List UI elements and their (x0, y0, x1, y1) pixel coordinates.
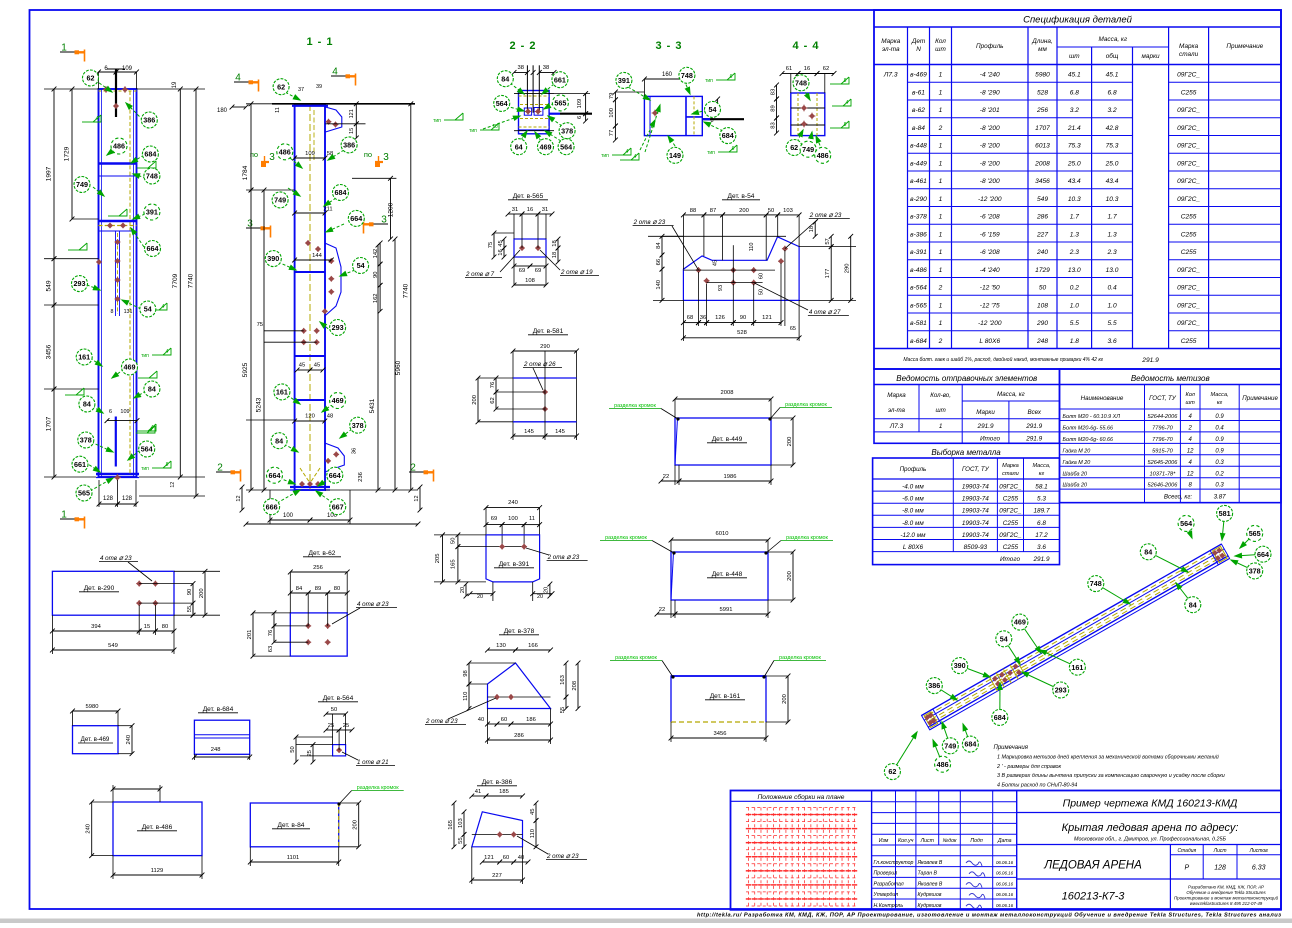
svg-text:7740: 7740 (188, 273, 195, 288)
balloon 684 (720, 128, 736, 144)
svg-text:С255: С255 (1181, 338, 1197, 345)
detail v-469 (70, 704, 134, 756)
svg-text:Примечание: Примечание (1226, 43, 1263, 50)
svg-text:по: по (364, 150, 372, 159)
svg-text:8: 8 (844, 78, 847, 84)
svg-text:в-564: в-564 (910, 285, 927, 292)
svg-text:76: 76 (268, 630, 274, 636)
svg-text:18: 18 (552, 240, 558, 246)
anchor rib bottom view 1 (115, 417, 117, 467)
svg-text:Профиль: Профиль (976, 43, 1004, 50)
left dim chain view 1 (44, 88, 99, 90)
svg-text:564: 564 (141, 445, 153, 454)
balloon 84 (271, 433, 287, 449)
svg-text:62: 62 (87, 74, 95, 83)
svg-text:Выборка металла: Выборка металла (931, 448, 1001, 457)
svg-text:248: 248 (211, 747, 221, 753)
svg-text:Болт М20-6g- 60.66: Болт М20-6g- 60.66 (1063, 437, 1113, 443)
beam axis 3-3 (702, 118, 744, 120)
balloon 378 (559, 123, 575, 139)
balloon 386 (341, 137, 357, 153)
svg-text:мм: мм (1038, 46, 1047, 53)
svg-text:145: 145 (555, 429, 565, 435)
svg-text:1: 1 (939, 302, 943, 309)
balloon 469 (122, 359, 138, 375)
svg-text:165: 165 (451, 559, 457, 569)
svg-text:-4.0 мм: -4.0 мм (902, 484, 924, 491)
svg-text:0.2: 0.2 (1215, 471, 1224, 477)
svg-text:83: 83 (770, 89, 776, 95)
svg-text:Дата: Дата (997, 838, 1012, 844)
svg-text:4 отв ⌀ 23: 4 отв ⌀ 23 (357, 601, 389, 608)
svg-text:кг: кг (1217, 400, 1223, 406)
svg-text:108: 108 (1037, 302, 1048, 309)
svg-text:16: 16 (527, 207, 533, 213)
svg-text:76: 76 (490, 382, 496, 388)
svg-text:8: 8 (166, 462, 169, 468)
svg-text:Дет. в-448: Дет. в-448 (712, 571, 743, 578)
svg-text:109: 109 (122, 66, 133, 72)
detail v-391 (434, 500, 588, 601)
svg-text:Кол.уч: Кол.уч (898, 838, 914, 844)
svg-text:шт: шт (1186, 400, 1196, 406)
svg-text:549: 549 (108, 643, 118, 649)
svg-text:186: 186 (526, 717, 536, 723)
balloon 661 (72, 456, 88, 472)
svg-text:1.3: 1.3 (1107, 231, 1116, 238)
section view 4-4 (770, 40, 851, 150)
title block right section (1017, 812, 1281, 814)
svg-text:75: 75 (488, 242, 494, 248)
svg-text:50: 50 (290, 746, 296, 752)
balloon 378 (78, 432, 94, 448)
svg-text:стали: стали (1179, 51, 1199, 58)
balloon 62 (273, 79, 289, 95)
svg-text:581: 581 (1219, 509, 1231, 518)
svg-text:С255: С255 (1003, 496, 1019, 503)
svg-text:486: 486 (817, 151, 829, 160)
svg-text:128: 128 (103, 496, 114, 502)
svg-text:2 ' - размеры для справок: 2 ' - размеры для справок (996, 764, 1062, 770)
svg-text:45.1: 45.1 (1068, 72, 1081, 79)
svg-text:4: 4 (846, 100, 849, 106)
svg-text:4 отв ⌀ 27: 4 отв ⌀ 27 (809, 309, 841, 316)
svg-text:77: 77 (609, 130, 615, 136)
svg-text:160: 160 (662, 72, 673, 78)
svg-text:84: 84 (656, 242, 662, 249)
section mark 1 top (60, 51, 80, 53)
svg-text:565: 565 (554, 99, 566, 108)
svg-text:564: 564 (1180, 519, 1192, 528)
member outline isometric (922, 544, 1222, 715)
svg-text:7709: 7709 (172, 273, 179, 288)
svg-text:55: 55 (560, 707, 566, 713)
svg-text:10.3: 10.3 (1068, 196, 1081, 203)
balloon 486 (111, 138, 127, 154)
svg-text:06.06.16: 06.06.16 (996, 892, 1014, 897)
svg-text:20: 20 (544, 587, 550, 593)
svg-text:-12 '200: -12 '200 (978, 320, 1002, 327)
balloon 390 (265, 251, 281, 267)
svg-text:№док: №док (943, 838, 957, 844)
balloon 564 (139, 441, 155, 457)
svg-text:144: 144 (312, 253, 322, 259)
svg-text:Разработал: Разработал (874, 881, 904, 887)
svg-text:2 отв ⌀ 23: 2 отв ⌀ 23 (547, 554, 580, 561)
step upper bracket view 1-1 (325, 243, 341, 316)
svg-text:Проверил: Проверил (874, 871, 898, 877)
iso balloon 161 (1040, 650, 1077, 667)
svg-text:45.1: 45.1 (1106, 72, 1119, 79)
balloon 469 (330, 393, 346, 409)
svg-text:Обучение и внедрение Tekla Str: Обучение и внедрение Tekla Structures (1186, 890, 1266, 895)
svg-text:39: 39 (316, 84, 322, 90)
svg-text:в-565: в-565 (910, 302, 927, 309)
bottom bracket view 1-1 (325, 443, 345, 472)
svg-text:565: 565 (78, 489, 90, 498)
svg-text:64: 64 (515, 142, 523, 151)
svg-text:145: 145 (524, 429, 534, 435)
iso balloon 84 (1176, 583, 1193, 605)
view 1-1 column elevation (216, 36, 434, 526)
svg-text:749: 749 (76, 180, 88, 189)
svg-text:6: 6 (732, 146, 735, 152)
transition lines view 1-1 (295, 271, 325, 273)
section marks 4 (234, 81, 254, 83)
svg-text:486: 486 (937, 760, 949, 769)
svg-text:в-486: в-486 (910, 267, 927, 274)
svg-text:Ведомость отправочных элементо: Ведомость отправочных элементов (896, 374, 1037, 383)
svg-text:Болт М20 - 60.10.9 ХЛ: Болт М20 - 60.10.9 ХЛ (1063, 414, 1121, 420)
red grid plan (748, 808, 750, 907)
svg-text:3.6: 3.6 (1037, 544, 1046, 551)
svg-text:565: 565 (1249, 529, 1261, 538)
svg-text:Дет: Дет (911, 38, 926, 45)
svg-text:60: 60 (503, 855, 509, 861)
svg-text:Московская обл., г. Дмитров, у: Московская обл., г. Дмитров, ул. Професс… (1074, 837, 1226, 843)
svg-text:291.9: 291.9 (1033, 556, 1050, 563)
svg-text:240: 240 (86, 824, 92, 834)
svg-text:200: 200 (353, 820, 359, 830)
svg-text:25.0: 25.0 (1067, 160, 1081, 167)
svg-text:0.3: 0.3 (1215, 460, 1224, 466)
svg-text:50: 50 (331, 707, 337, 713)
svg-text:09Г2С_: 09Г2С_ (1177, 178, 1200, 185)
svg-text:в-84: в-84 (912, 125, 925, 132)
svg-text:Кудряшов: Кудряшов (918, 903, 942, 909)
svg-text:4: 4 (150, 427, 153, 433)
svg-text:4: 4 (162, 304, 165, 310)
detail v-54 (633, 193, 856, 341)
balloon 84 (497, 71, 513, 87)
svg-text:1: 1 (61, 43, 67, 54)
svg-text:L 80X6: L 80X6 (979, 338, 1000, 345)
svg-text:166: 166 (528, 643, 538, 649)
balloon 486 (815, 147, 831, 163)
svg-text:549: 549 (1037, 196, 1048, 203)
svg-text:103: 103 (458, 818, 464, 828)
svg-text:62: 62 (888, 767, 896, 776)
svg-text:3456: 3456 (1035, 178, 1050, 185)
svg-text:-6 '208: -6 '208 (980, 214, 1000, 221)
balloon 748 (144, 168, 160, 184)
svg-text:в-581: в-581 (910, 320, 927, 327)
svg-text:87: 87 (710, 208, 716, 214)
bottom grey strip (0, 919, 1292, 924)
svg-text:1: 1 (939, 72, 943, 79)
svg-text:1 Маркировка метизов дней кре: 1 Маркировка метизов дней крепления за м… (997, 754, 1219, 761)
svg-text:4 Болты расход по СНиП-80-94: 4 Болты расход по СНиП-80-94 (997, 783, 1077, 789)
svg-text:200: 200 (787, 571, 793, 581)
iso balloon 386 (934, 686, 957, 700)
balloon 386 (141, 112, 157, 128)
svg-text:256: 256 (313, 565, 323, 571)
svg-text:211: 211 (323, 207, 332, 213)
balloon 684 (333, 185, 349, 201)
detail v-161 (610, 655, 826, 742)
svg-text:200: 200 (199, 588, 205, 598)
svg-text:2 - 2: 2 - 2 (509, 40, 536, 52)
svg-text:121: 121 (762, 315, 772, 321)
svg-text:84: 84 (296, 586, 303, 592)
iso balloon 748 (1096, 584, 1130, 604)
iso balloon 62 (892, 732, 917, 772)
detail v-84 (248, 785, 404, 866)
svg-text:марки: марки (1142, 53, 1161, 60)
svg-text:Лист: Лист (1213, 848, 1227, 854)
svg-text:68: 68 (687, 315, 693, 321)
svg-text:0.9: 0.9 (1215, 448, 1224, 454)
svg-text:19903-74: 19903-74 (962, 532, 989, 539)
top small dims view 1 (99, 71, 117, 73)
svg-text:кг: кг (1039, 471, 1045, 477)
svg-text:Марка: Марка (1002, 463, 1019, 469)
table vyborka metalla (873, 448, 1060, 565)
svg-text:98: 98 (463, 670, 469, 676)
svg-text:тип: тип (705, 78, 713, 84)
svg-text:165: 165 (448, 820, 454, 830)
svg-text:6: 6 (109, 409, 112, 415)
svg-text:Марка: Марка (887, 392, 906, 399)
svg-text:3.6: 3.6 (1107, 338, 1116, 345)
svg-text:2 отв ⌀ 7: 2 отв ⌀ 7 (465, 271, 495, 278)
svg-text:12: 12 (1187, 448, 1194, 454)
svg-text:5980: 5980 (1035, 72, 1050, 79)
svg-text:1 отв ⌀ 21: 1 отв ⌀ 21 (357, 759, 389, 766)
bottom dims view 1 (99, 503, 118, 505)
svg-text:161: 161 (78, 353, 90, 362)
balloon 664 (267, 467, 283, 483)
iso balloon 565 (1240, 533, 1255, 548)
svg-text:286: 286 (514, 733, 524, 739)
svg-text:Всех: Всех (1027, 409, 1041, 416)
balloon 64 (511, 139, 527, 155)
svg-text:5431: 5431 (369, 398, 376, 413)
svg-text:200: 200 (739, 208, 749, 214)
svg-text:90: 90 (740, 315, 746, 321)
svg-text:390: 390 (267, 254, 279, 263)
svg-text:6013: 6013 (1035, 143, 1050, 150)
svg-text:Марка: Марка (1179, 43, 1199, 50)
svg-text:386: 386 (143, 116, 155, 125)
svg-text:16: 16 (804, 66, 810, 72)
svg-text:564: 564 (560, 142, 572, 151)
iso balloon 749 (942, 722, 950, 746)
svg-text:3: 3 (247, 219, 253, 230)
balloons 3-3 (616, 67, 736, 163)
balloon 748 (679, 67, 695, 83)
outline 3-3 (644, 96, 702, 135)
svg-text:684: 684 (994, 713, 1006, 722)
svg-text:Стадия: Стадия (1177, 848, 1196, 854)
svg-text:109: 109 (120, 409, 129, 415)
svg-text:Дет. в-581: Дет. в-581 (533, 328, 564, 335)
svg-text:-12 '50: -12 '50 (980, 285, 1000, 292)
svg-text:11: 11 (275, 107, 281, 113)
svg-text:10371-78*: 10371-78* (1150, 471, 1177, 477)
svg-text:Спецификация деталей: Спецификация деталей (1023, 15, 1133, 26)
svg-text:50: 50 (451, 538, 457, 544)
svg-text:0.3: 0.3 (1215, 483, 1224, 489)
svg-text:Дет. в-449: Дет. в-449 (712, 436, 743, 443)
svg-text:в-391: в-391 (910, 249, 927, 256)
svg-text:37: 37 (298, 87, 304, 93)
svg-text:Положение сборки на плане: Положение сборки на плане (758, 793, 845, 801)
balloons 2-2 (494, 71, 575, 155)
leaders 2-2 (510, 83, 524, 94)
svg-text:4: 4 (96, 116, 99, 122)
svg-text:236: 236 (358, 472, 364, 482)
svg-text:61: 61 (786, 66, 792, 72)
svg-text:15: 15 (144, 624, 150, 630)
svg-text:8: 8 (111, 309, 114, 315)
svg-text:163: 163 (560, 675, 566, 685)
svg-text:2 отв ⌀ 23: 2 отв ⌀ 23 (809, 212, 842, 219)
svg-text:С255: С255 (1181, 231, 1197, 238)
svg-text:тип: тип (141, 353, 149, 359)
svg-text:89: 89 (770, 105, 776, 111)
detail v-581 (472, 328, 579, 440)
svg-text:1.0: 1.0 (1107, 302, 1116, 309)
svg-text:54: 54 (144, 305, 152, 314)
svg-text:09Г2С_: 09Г2С_ (1177, 107, 1200, 114)
svg-text:3: 3 (381, 215, 387, 226)
svg-text:Марки: Марки (976, 409, 995, 416)
svg-text:227: 227 (1036, 231, 1048, 238)
svg-text:80: 80 (162, 624, 168, 630)
svg-text:Дет. в-565: Дет. в-565 (513, 193, 544, 200)
weld flags 4-4 (830, 83, 841, 85)
svg-text:стали: стали (1002, 471, 1019, 477)
svg-text:2: 2 (938, 125, 943, 132)
svg-text:2: 2 (217, 463, 223, 474)
svg-text:2: 2 (938, 285, 943, 292)
svg-text:тип: тип (141, 466, 149, 472)
svg-text:06.06.16: 06.06.16 (996, 871, 1014, 876)
svg-text:шт: шт (935, 46, 946, 53)
svg-text:шт: шт (935, 407, 945, 414)
svg-text:в-461: в-461 (910, 178, 927, 185)
svg-text:667: 667 (332, 502, 344, 511)
svg-text:664: 664 (350, 214, 362, 223)
svg-text:Пример чертежа КМД 160213-КМД: Пример чертежа КМД 160213-КМД (1063, 798, 1238, 810)
svg-text:19903-74: 19903-74 (962, 520, 989, 527)
svg-text:Дет. в-486: Дет. в-486 (142, 824, 173, 831)
svg-text:4: 4 (634, 154, 637, 160)
svg-text:общ: общ (1106, 52, 1119, 60)
svg-text:06.06.16: 06.06.16 (996, 881, 1014, 886)
svg-text:131: 131 (124, 309, 133, 315)
balloon 84 (144, 381, 160, 397)
detail v-290 (50, 555, 220, 654)
svg-text:227: 227 (492, 873, 502, 879)
svg-text:748: 748 (1090, 579, 1102, 588)
leaders 3-3 (628, 87, 650, 100)
svg-text:12: 12 (170, 482, 176, 488)
svg-text:Шайба 20: Шайба 20 (1063, 470, 1087, 477)
svg-text:1729: 1729 (64, 146, 71, 161)
svg-text:45: 45 (299, 363, 305, 369)
svg-text:0.4: 0.4 (1215, 425, 1224, 431)
svg-text:50: 50 (759, 289, 765, 295)
detail v-448 (600, 531, 833, 618)
svg-text:Шайба 20: Шайба 20 (1063, 482, 1087, 489)
svg-text:161: 161 (1071, 663, 1083, 672)
svg-text:С255: С255 (1003, 520, 1019, 527)
polozhenie sborki box (871, 791, 873, 910)
svg-text:90: 90 (373, 271, 379, 277)
svg-text:390: 390 (954, 661, 966, 670)
svg-text:5.3: 5.3 (1037, 496, 1046, 503)
svg-text:109: 109 (305, 151, 315, 157)
svg-text:Проектирование и монтаж металл: Проектирование и монтаж металлоконструкц… (1174, 896, 1279, 901)
svg-text:тип: тип (601, 153, 609, 159)
specification table (874, 10, 1281, 369)
svg-text:8509-93: 8509-93 (964, 544, 988, 551)
svg-text:Дет. в-62: Дет. в-62 (309, 550, 336, 557)
iso balloon 390 (960, 666, 990, 677)
iso balloon 486 (933, 740, 943, 764)
balloon 565 (76, 485, 92, 501)
svg-text:16: 16 (498, 249, 504, 255)
svg-text:293: 293 (74, 279, 86, 288)
svg-text:160213-К7-3: 160213-К7-3 (1062, 891, 1126, 903)
svg-text:09Г2С_: 09Г2С_ (999, 484, 1022, 491)
detail v-378 (425, 628, 580, 744)
detail v-684 (192, 706, 252, 760)
svg-text:5960: 5960 (395, 360, 402, 375)
bolt cluster view 1-1 (328, 260, 334, 262)
svg-text:43.4: 43.4 (1106, 178, 1119, 185)
svg-text:25: 25 (328, 723, 334, 729)
svg-text:-6 '159: -6 '159 (980, 231, 1000, 238)
svg-text:1200: 1200 (388, 202, 395, 217)
svg-text:2.3: 2.3 (1069, 249, 1079, 256)
svg-text:391: 391 (146, 208, 158, 217)
section marks 2 (216, 471, 236, 473)
svg-text:4 отв ⌀ 23: 4 отв ⌀ 23 (100, 555, 132, 562)
svg-text:6: 6 (730, 74, 733, 80)
svg-text:13.0: 13.0 (1106, 267, 1119, 274)
svg-text:1.3: 1.3 (1070, 231, 1079, 238)
svg-text:549: 549 (46, 280, 53, 291)
svg-text:528: 528 (1037, 89, 1048, 96)
svg-text:09Г2С_: 09Г2С_ (1177, 267, 1200, 274)
svg-text:-12 '75: -12 '75 (980, 302, 1000, 309)
balloon 149 (667, 147, 683, 163)
svg-text:748: 748 (795, 78, 807, 87)
svg-text:661: 661 (74, 460, 86, 469)
